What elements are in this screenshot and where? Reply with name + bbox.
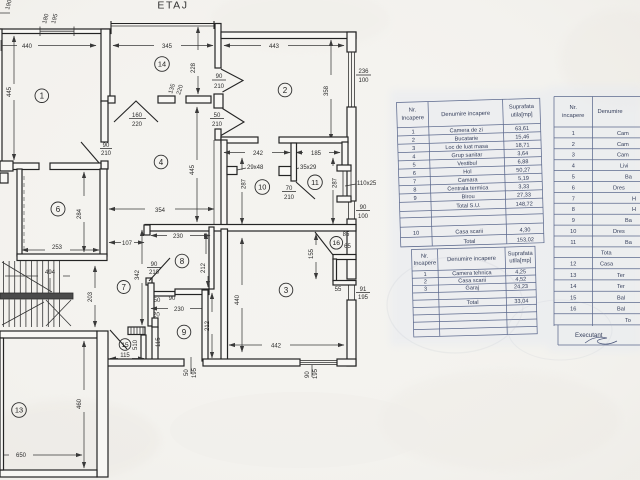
svg-text:203: 203 — [88, 291, 94, 302]
room 14 circle — [155, 57, 170, 72]
svg-text:50: 50 — [154, 298, 161, 304]
svg-text:Bal: Bal — [617, 307, 625, 313]
svg-text:650: 650 — [16, 453, 27, 459]
svg-text:11: 11 — [570, 240, 576, 246]
wall room13 top — [0, 331, 97, 338]
svg-text:Suprafata: Suprafata — [509, 104, 535, 111]
svg-text:3: 3 — [424, 287, 427, 293]
dim 440 room3 vertical — [235, 238, 242, 352]
svg-text:Grup sanitar: Grup sanitar — [451, 152, 482, 159]
stamp arc 2 — [508, 300, 612, 360]
label 236/100 — [356, 69, 371, 84]
svg-text:220: 220 — [132, 122, 143, 128]
svg-text:Total: Total — [463, 239, 475, 245]
svg-text:8: 8 — [413, 187, 416, 193]
svg-text:4,52: 4,52 — [515, 277, 526, 283]
svg-text:Cam: Cam — [617, 131, 629, 137]
svg-text:Suprafata: Suprafata — [508, 251, 534, 258]
svg-text:7: 7 — [121, 283, 126, 292]
dim 460 room13 vertical — [77, 341, 84, 468]
svg-text:3: 3 — [412, 146, 415, 152]
svg-text:90: 90 — [216, 74, 223, 80]
svg-text:Ba: Ba — [625, 240, 633, 246]
label 35x29 — [291, 165, 317, 171]
wall plan right lower — [347, 219, 356, 279]
svg-text:1: 1 — [40, 92, 45, 101]
dim 242 — [224, 151, 290, 157]
svg-text:Garaj: Garaj — [465, 285, 479, 291]
svg-text:210: 210 — [214, 84, 225, 90]
label 135/220 rotated — [168, 83, 185, 96]
wall room6 bottom — [17, 254, 107, 261]
wall rooms10-11 top — [279, 137, 348, 143]
svg-text:210: 210 — [212, 122, 223, 128]
svg-text:Cam: Cam — [617, 153, 629, 159]
svg-text:228: 228 — [191, 62, 197, 73]
svg-text:358: 358 — [324, 85, 330, 96]
svg-text:Bucatarie: Bucatarie — [455, 136, 479, 143]
wall room2 top — [221, 32, 356, 39]
wall room2 left lower — [215, 129, 221, 140]
shaft 29x48 — [227, 167, 237, 175]
wall plan right upper — [347, 32, 356, 52]
svg-text:90: 90 — [305, 371, 311, 378]
label 110x25 — [345, 181, 377, 187]
corner tick top-left — [0, 0, 14, 13]
room 16 circle — [330, 237, 343, 250]
svg-text:2: 2 — [283, 86, 288, 95]
chimney hatched room15 — [128, 327, 145, 335]
wall room2 left upper — [215, 24, 221, 69]
wall room2 left pier — [214, 94, 223, 108]
svg-text:Denumire: Denumire — [598, 109, 623, 115]
wall room6 left — [17, 169, 22, 256]
stamp arc 1 — [387, 257, 523, 353]
svg-text:9: 9 — [572, 218, 575, 224]
svg-text:345: 345 — [162, 44, 173, 50]
dim 284 room6 — [77, 172, 84, 252]
svg-text:2: 2 — [412, 138, 415, 144]
wall camara top — [221, 137, 258, 143]
svg-text:195: 195 — [313, 368, 319, 379]
opening 160/220 triangle — [114, 101, 158, 122]
svg-text:3: 3 — [572, 153, 575, 159]
svg-text:2: 2 — [424, 279, 427, 285]
door room8 leaf — [149, 258, 170, 281]
dim 253 room6 — [22, 245, 99, 251]
dim 212 room8 vertical — [201, 233, 208, 287]
wall room8 left — [144, 225, 152, 285]
svg-text:H: H — [632, 207, 636, 213]
svg-text:12: 12 — [570, 262, 576, 268]
svg-text:4: 4 — [572, 164, 575, 170]
svg-text:9: 9 — [413, 196, 416, 202]
svg-text:24,23: 24,23 — [514, 284, 528, 290]
label 90/210 room8 — [147, 262, 161, 276]
paper wash behind tables — [390, 86, 640, 352]
dim 287 room11 — [333, 158, 339, 224]
dim 185 — [296, 151, 340, 157]
svg-text:7: 7 — [413, 179, 416, 185]
svg-text:11: 11 — [311, 178, 319, 187]
wall room9 left step — [152, 318, 158, 328]
svg-text:16: 16 — [333, 240, 341, 247]
door room16 leaf — [315, 232, 333, 255]
svg-text:212: 212 — [205, 320, 211, 331]
duct niche room11 right — [337, 165, 351, 202]
room 11 circle — [308, 175, 323, 190]
svg-text:incapere: incapere — [562, 113, 584, 119]
table 1 areas etaj — [397, 98, 545, 247]
label 50/195 rotated — [184, 357, 198, 378]
label 70/210 — [282, 186, 296, 201]
room 4 circle — [154, 155, 168, 169]
svg-text:utila[mp]: utila[mp] — [511, 112, 533, 119]
svg-text:50: 50 — [184, 369, 190, 376]
wall room13 left — [0, 338, 4, 470]
svg-text:155: 155 — [309, 248, 315, 259]
room 6 circle — [51, 202, 65, 216]
svg-text:110x25: 110x25 — [357, 181, 377, 187]
small shafts left edge — [0, 161, 13, 183]
svg-text:Tota: Tota — [601, 250, 612, 256]
dim 287 room10 — [242, 158, 248, 224]
svg-text:342: 342 — [135, 269, 141, 280]
room 13 circle — [12, 403, 27, 418]
dim 155 vertical — [309, 234, 316, 279]
room 9 circle — [177, 325, 191, 339]
svg-text:13: 13 — [570, 273, 576, 279]
window label 180/195 rotated — [42, 13, 60, 25]
staircase landing bar — [0, 293, 73, 299]
window 91/195 — [349, 283, 355, 300]
door room2 upper opening — [221, 69, 243, 92]
svg-text:4,25: 4,25 — [515, 269, 526, 275]
wall room13 right — [97, 331, 108, 477]
svg-text:210: 210 — [149, 270, 160, 276]
svg-text:153,02: 153,02 — [517, 237, 534, 244]
svg-text:1: 1 — [572, 131, 575, 137]
dim 440 — [1, 40, 96, 51]
room 1 circle — [35, 89, 49, 103]
dashed wardrobe line room6 — [23, 176, 25, 250]
window bottom 90/195 — [300, 361, 337, 365]
dim 115 room15 — [110, 353, 144, 359]
svg-text:Birou: Birou — [462, 194, 475, 200]
svg-text:65: 65 — [344, 244, 351, 250]
svg-text:212: 212 — [201, 262, 207, 273]
wall mid horizontal — [145, 225, 356, 232]
svg-text:10: 10 — [570, 229, 576, 235]
svg-text:4: 4 — [159, 158, 164, 167]
wall plan right mid — [347, 107, 356, 201]
svg-text:1: 1 — [424, 272, 427, 278]
room 3 circle — [279, 283, 293, 297]
window 236/100 — [349, 52, 355, 107]
svg-text:287: 287 — [333, 177, 339, 188]
svg-text:10: 10 — [258, 183, 266, 192]
svg-text:7: 7 — [572, 196, 575, 202]
svg-text:6,88: 6,88 — [518, 159, 529, 165]
svg-text:443: 443 — [269, 44, 280, 50]
svg-text:14: 14 — [158, 60, 166, 69]
svg-text:195: 195 — [192, 367, 198, 378]
wall bottom left part — [107, 359, 184, 366]
svg-text:33,04: 33,04 — [514, 299, 528, 305]
svg-text:3,33: 3,33 — [518, 184, 529, 190]
svg-text:Ter: Ter — [617, 284, 625, 290]
svg-text:Ter: Ter — [617, 273, 625, 279]
dim 345 — [113, 44, 213, 50]
svg-text:Casa scarii: Casa scarii — [458, 278, 486, 285]
svg-text:Nr.: Nr. — [409, 107, 417, 113]
wall room1 right — [101, 29, 110, 169]
svg-text:Vestibul: Vestibul — [457, 161, 477, 168]
svg-text:Dres: Dres — [613, 229, 625, 235]
svg-text:8: 8 — [180, 257, 185, 266]
svg-text:100: 100 — [358, 78, 369, 84]
wall bottom right part — [337, 359, 356, 366]
svg-text:Camara: Camara — [458, 177, 479, 184]
table 3 right cut-off — [554, 97, 640, 346]
svg-text:115: 115 — [120, 353, 130, 359]
svg-text:Incapere: Incapere — [401, 115, 424, 122]
svg-text:6: 6 — [572, 185, 575, 191]
svg-text:15: 15 — [121, 342, 129, 349]
dim 203 vertical — [88, 266, 95, 327]
dim 445 hall vertical — [190, 107, 197, 222]
svg-text:90: 90 — [169, 296, 176, 302]
label 90/195 rotated — [305, 365, 319, 379]
wall room9 left lower — [152, 327, 158, 361]
svg-text:242: 242 — [253, 151, 264, 157]
svg-text:Ba: Ba — [625, 175, 633, 181]
svg-text:Total: Total — [467, 300, 479, 306]
svg-text:284: 284 — [77, 208, 83, 219]
svg-text:Hol: Hol — [463, 169, 472, 175]
svg-text:10: 10 — [413, 231, 419, 237]
svg-text:230: 230 — [173, 234, 184, 240]
svg-text:Bal: Bal — [617, 295, 625, 301]
svg-text:16: 16 — [570, 307, 576, 313]
svg-text:148,72: 148,72 — [516, 201, 533, 208]
svg-text:85: 85 — [343, 232, 350, 238]
svg-text:210: 210 — [101, 151, 112, 157]
svg-text:185: 185 — [311, 151, 322, 157]
svg-text:1: 1 — [411, 129, 414, 135]
svg-text:Total S.U.: Total S.U. — [456, 203, 481, 210]
svg-text:Nr.: Nr. — [421, 254, 429, 260]
dim 443 — [224, 44, 344, 50]
door room15 leaf — [110, 330, 127, 349]
table 2 garaj areas — [412, 246, 538, 337]
svg-text:20: 20 — [153, 313, 160, 319]
svg-text:236: 236 — [358, 69, 369, 75]
svg-text:Nr.: Nr. — [570, 105, 578, 111]
room 2 circle — [278, 83, 292, 97]
door label 90/210 room1 — [100, 143, 112, 157]
dim 650 room13 — [4, 453, 82, 459]
svg-text:4,30: 4,30 — [520, 227, 531, 233]
dim 228 vertical — [191, 27, 198, 94]
wall room3 left — [221, 229, 228, 365]
svg-text:494: 494 — [45, 270, 56, 276]
wall rooms10-11 divider — [291, 143, 297, 181]
svg-text:8: 8 — [572, 207, 575, 213]
label 50/210 room2 lower — [210, 113, 224, 128]
wall room8 right — [209, 227, 214, 289]
door room1 leaf — [81, 142, 100, 164]
balcony parapet top — [111, 21, 215, 29]
dim 358 vertical — [324, 40, 331, 140]
wall room11 right — [342, 142, 348, 166]
dim 354 hall — [109, 140, 214, 226]
dim 107 — [109, 241, 144, 247]
room 10 circle — [255, 180, 270, 195]
svg-text:4: 4 — [412, 154, 415, 160]
label 91/195 — [356, 287, 370, 301]
svg-text:55: 55 — [335, 287, 342, 293]
svg-text:2: 2 — [572, 142, 575, 148]
svg-text:3: 3 — [284, 286, 289, 295]
dim 445 room1 — [7, 36, 14, 160]
svg-text:Centrala termica: Centrala termica — [447, 185, 489, 192]
wall room13 bottom — [0, 470, 97, 477]
svg-text:27,33: 27,33 — [517, 192, 531, 198]
dim 230 room9 — [151, 307, 208, 313]
smudge bottom — [170, 392, 430, 468]
svg-text:15,46: 15,46 — [515, 134, 529, 140]
svg-text:18,71: 18,71 — [515, 143, 529, 149]
svg-text:460: 460 — [77, 398, 83, 409]
dim 212 vertical — [205, 293, 212, 358]
svg-text:287: 287 — [242, 178, 248, 189]
svg-text:253: 253 — [52, 245, 63, 251]
svg-text:195: 195 — [358, 295, 369, 301]
wall room1 left — [0, 29, 2, 168]
svg-text:440: 440 — [235, 294, 241, 305]
svg-text:Ba: Ba — [625, 218, 633, 224]
svg-text:107: 107 — [122, 241, 133, 247]
svg-text:5,19: 5,19 — [518, 176, 529, 182]
dim 442 room3 — [229, 344, 344, 350]
label 160/220 — [129, 113, 146, 128]
svg-text:utila[mp]: utila[mp] — [509, 258, 531, 265]
svg-text:510: 510 — [133, 339, 139, 350]
wall room1 bottom — [0, 163, 101, 170]
dim 230 room8 — [151, 234, 210, 240]
svg-text:To: To — [625, 318, 631, 324]
svg-text:Dres: Dres — [613, 185, 625, 191]
wall plan right bottom — [347, 300, 356, 366]
wall room15 right — [141, 335, 146, 362]
wall room9 left — [148, 283, 154, 326]
wall hall top — [108, 96, 211, 103]
svg-text:6: 6 — [56, 205, 61, 214]
room 15 circle — [119, 339, 131, 351]
window 90/100 — [349, 201, 355, 219]
svg-text:13: 13 — [15, 406, 23, 415]
svg-text:6: 6 — [413, 171, 416, 177]
svg-text:5: 5 — [572, 175, 575, 181]
svg-text:Cam: Cam — [617, 142, 629, 148]
wall room1 top — [0, 27, 111, 37]
staircase treads — [4, 261, 60, 327]
svg-text:H: H — [632, 196, 636, 202]
svg-text:354: 354 — [155, 208, 166, 214]
wall room9 top — [149, 289, 209, 296]
svg-text:Casa scarii: Casa scarii — [455, 229, 483, 236]
svg-text:9: 9 — [182, 328, 187, 337]
shaft 35x29 — [279, 167, 291, 176]
label 90/100 — [356, 205, 370, 220]
svg-text:35x29: 35x29 — [300, 165, 317, 171]
door 70/210 leaf — [296, 182, 315, 199]
svg-text:Camera de zi: Camera de zi — [449, 127, 482, 134]
svg-text:ETAJ: ETAJ — [157, 0, 188, 12]
svg-text:Executant: Executant — [575, 332, 603, 339]
label 90/210 room2 upper — [212, 74, 226, 90]
wall room9 right — [202, 290, 208, 361]
wall room6 right — [100, 169, 107, 256]
svg-text:440: 440 — [22, 44, 33, 50]
svg-text:3,64: 3,64 — [517, 151, 528, 157]
svg-text:210: 210 — [284, 195, 295, 201]
door room2 lower opening — [221, 109, 244, 136]
svg-text:Casa: Casa — [600, 262, 614, 268]
wall bottom mid part — [203, 359, 300, 366]
closet below room16 — [333, 259, 356, 285]
svg-text:5: 5 — [412, 163, 415, 169]
svg-text:445: 445 — [7, 86, 13, 97]
room 7 circle — [117, 281, 130, 294]
svg-text:115: 115 — [156, 337, 162, 347]
label 29x48 — [237, 165, 264, 171]
room 8 circle — [175, 254, 189, 268]
wall room16 bottom — [333, 255, 356, 260]
staircase up-line diagonals — [2, 262, 71, 326]
dim 494 — [5, 270, 70, 293]
svg-text:29x48: 29x48 — [247, 165, 264, 171]
svg-text:63,61: 63,61 — [515, 126, 529, 132]
wall hall right — [221, 140, 227, 229]
svg-text:Livi: Livi — [620, 164, 628, 170]
dim 342 vertical — [135, 230, 142, 325]
svg-text:442: 442 — [271, 344, 282, 350]
svg-text:50,27: 50,27 — [516, 167, 530, 173]
svg-text:445: 445 — [190, 164, 196, 175]
svg-text:230: 230 — [174, 307, 185, 313]
svg-text:100: 100 — [358, 214, 369, 220]
svg-text:14: 14 — [570, 284, 576, 290]
svg-text:Camera tehnica: Camera tehnica — [452, 270, 493, 277]
